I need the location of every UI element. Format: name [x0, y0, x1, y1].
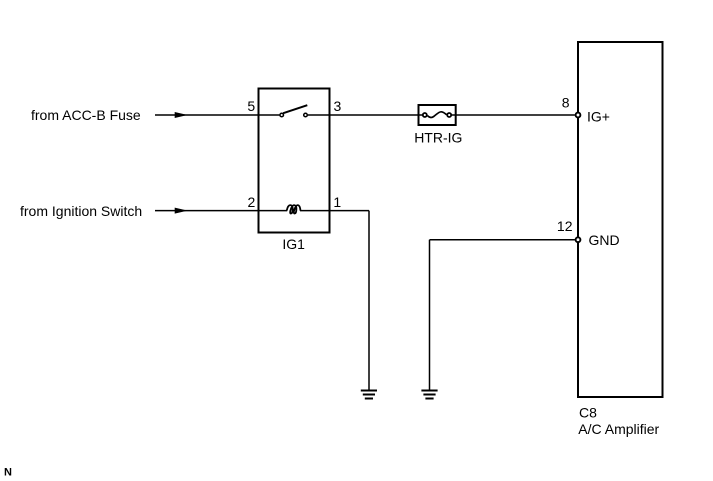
- svg-text:3: 3: [334, 98, 342, 114]
- wire fuse to C8 pin 8: [452, 114, 575, 116]
- svg-text:IG1: IG1: [282, 236, 305, 252]
- svg-text:N: N: [4, 466, 12, 478]
- wire pin12 vertical to ground: [429, 240, 431, 391]
- fuse left terminal: [423, 113, 427, 117]
- svg-text:IG+: IG+: [587, 108, 610, 124]
- wire relay pin1 horizontal: [300, 210, 369, 212]
- svg-text:8: 8: [562, 95, 570, 111]
- C8 pin 12 terminal: [576, 237, 581, 242]
- ground symbol right: [421, 391, 437, 399]
- arrowhead on ACC-B wire: [175, 112, 188, 118]
- fuse HTR-IG box: [419, 105, 456, 125]
- relay IG1 box: [259, 89, 330, 233]
- svg-text:from Ignition Switch: from Ignition Switch: [20, 203, 142, 219]
- switch blade: [283, 105, 307, 113]
- switch left contact: [280, 113, 284, 117]
- C8 pin 8 terminal: [576, 113, 581, 118]
- ground symbol left: [361, 391, 377, 399]
- wire from Ignition Switch to relay pin 2: [155, 210, 287, 212]
- svg-text:C8: C8: [579, 405, 597, 421]
- svg-text:2: 2: [248, 194, 256, 210]
- relay coil: [287, 205, 301, 213]
- svg-text:1: 1: [333, 194, 341, 210]
- wire C8 pin12 horizontal: [430, 239, 575, 241]
- svg-text:A/C Amplifier: A/C Amplifier: [578, 421, 659, 437]
- svg-text:GND: GND: [589, 232, 620, 248]
- svg-text:HTR-IG: HTR-IG: [414, 130, 462, 146]
- fuse right terminal: [447, 113, 451, 117]
- svg-text:from ACC-B Fuse: from ACC-B Fuse: [31, 107, 141, 123]
- arrowhead on Ignition Switch wire: [175, 208, 188, 214]
- wire from ACC-B Fuse to relay pin 5: [155, 114, 279, 116]
- connector C8 A/C Amplifier box: [578, 42, 663, 397]
- wire pin1 vertical to ground: [368, 211, 370, 391]
- svg-text:5: 5: [247, 98, 255, 114]
- switch right contact: [304, 113, 308, 117]
- fuse element wave: [427, 112, 446, 118]
- svg-text:12: 12: [557, 218, 573, 234]
- wire relay pin3 to fuse: [308, 114, 422, 116]
